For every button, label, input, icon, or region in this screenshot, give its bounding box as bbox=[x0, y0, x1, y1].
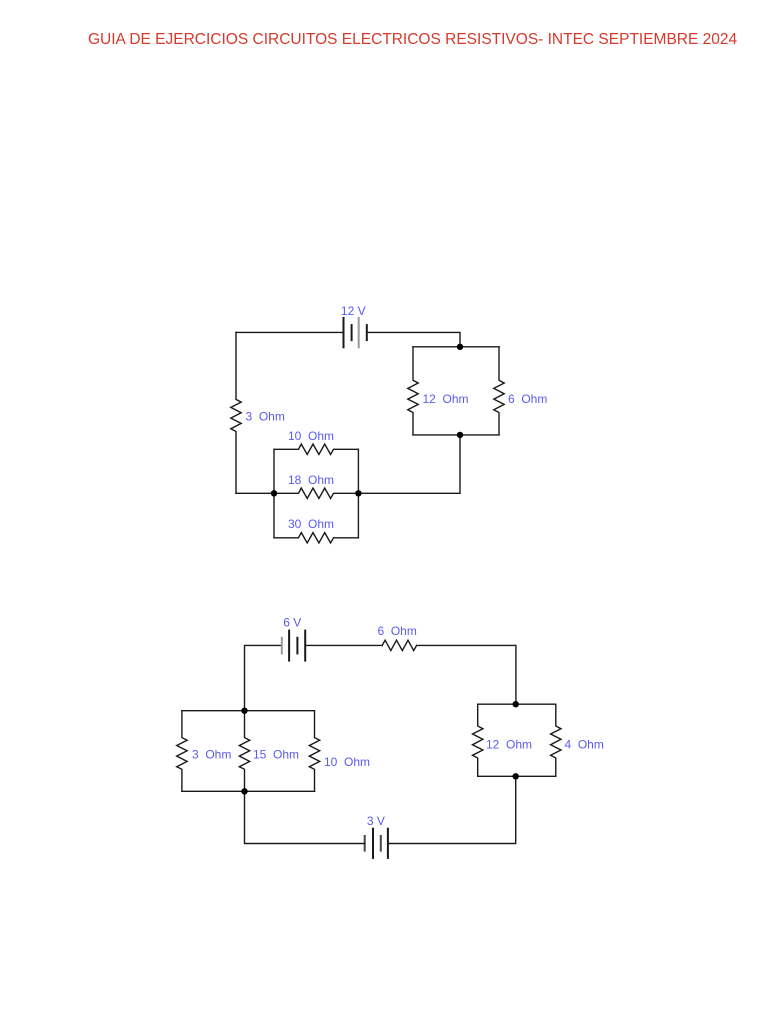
resistor R4 18 Ohm bbox=[274, 488, 358, 498]
wire battery 3V to left vertical bbox=[245, 791, 365, 843]
node B bottom of right box bbox=[457, 432, 463, 438]
wire right box top line bbox=[413, 346, 499, 348]
node D middle box right bbox=[355, 490, 361, 496]
svg-text:3 Ohm: 3 Ohm bbox=[192, 748, 231, 762]
resistor R9 4 Ohm bbox=[551, 704, 561, 776]
svg-text:6 Ohm: 6 Ohm bbox=[508, 392, 547, 406]
svg-text:10 Ohm: 10 Ohm bbox=[324, 755, 370, 769]
svg-text:6 Ohm: 6 Ohm bbox=[378, 624, 417, 638]
svg-text:15 Ohm: 15 Ohm bbox=[253, 748, 299, 762]
wire middle box right edge bbox=[357, 449, 359, 538]
resistor R11 15 Ohm bbox=[239, 711, 249, 792]
resistor R6 3 Ohm with left vertical wire bbox=[231, 332, 241, 493]
resistor R5 30 Ohm bbox=[274, 533, 358, 543]
wire left box top line bbox=[182, 710, 315, 712]
svg-text:12 Ohm: 12 Ohm bbox=[486, 738, 532, 752]
wire middle box left edge bbox=[273, 449, 275, 538]
node G right box top bbox=[513, 701, 519, 707]
svg-text:6 V: 6 V bbox=[283, 616, 301, 630]
svg-text:12 V: 12 V bbox=[341, 304, 366, 318]
wire node to middle box bbox=[358, 435, 460, 493]
node A top of right box bbox=[457, 344, 463, 350]
resistor R7 6 Ohm bbox=[382, 640, 416, 650]
svg-text:30 Ohm: 30 Ohm bbox=[288, 517, 334, 531]
resistor R3 10 Ohm bbox=[274, 444, 358, 454]
wire battery to resistor bbox=[305, 644, 382, 646]
wire right box to battery 3V bbox=[388, 776, 516, 843]
node E left box top bbox=[241, 708, 247, 714]
wire right box bottom line bbox=[478, 775, 556, 777]
wire left box bottom line bbox=[182, 790, 315, 792]
wire top-left horizontal circuit 1 bbox=[236, 331, 344, 333]
resistor R2 6 Ohm bbox=[494, 347, 504, 435]
battery V2 6V bbox=[282, 631, 305, 661]
battery V3 3V bbox=[365, 829, 388, 858]
resistor R12 10 Ohm bbox=[309, 711, 319, 792]
svg-text:12 Ohm: 12 Ohm bbox=[423, 392, 469, 406]
node H right box bottom bbox=[513, 773, 519, 779]
resistor R8 12 Ohm bbox=[473, 704, 483, 776]
wire resistor to right box bbox=[417, 645, 516, 704]
battery V1 12V bbox=[344, 318, 367, 347]
svg-text:3 Ohm: 3 Ohm bbox=[246, 410, 285, 424]
wire middle box to left wire bbox=[236, 492, 274, 494]
wire right box top line bbox=[478, 703, 556, 705]
wire circuit 2 top-left corner to battery bbox=[245, 645, 282, 710]
svg-text:10 Ohm: 10 Ohm bbox=[288, 429, 334, 443]
resistor R1 12 Ohm bbox=[408, 347, 418, 435]
resistor R10 3 Ohm bbox=[177, 711, 187, 792]
svg-text:18 Ohm: 18 Ohm bbox=[288, 473, 334, 487]
svg-text:3 V: 3 V bbox=[367, 814, 385, 828]
node C middle box left bbox=[271, 490, 277, 496]
wire right box bottom line bbox=[413, 434, 499, 436]
title bbox=[88, 31, 737, 49]
wire battery to top-right corner and drop bbox=[367, 332, 460, 346]
svg-text:4 Ohm: 4 Ohm bbox=[565, 738, 604, 752]
node F left box bottom bbox=[241, 788, 247, 794]
